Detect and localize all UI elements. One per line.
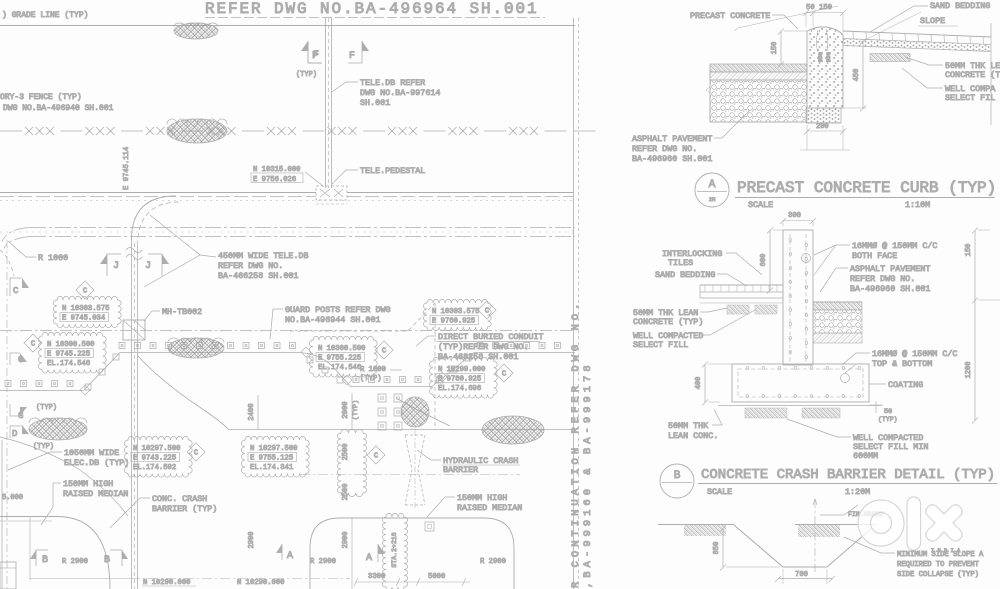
svg-text:R 2900: R 2900	[310, 558, 336, 566]
svg-text:2900: 2900	[342, 532, 350, 549]
guardrail diagonal left	[84, 353, 120, 391]
rebar callout circle	[802, 254, 811, 263]
svg-text:400: 400	[695, 377, 703, 390]
median left vertical dim	[29, 516, 31, 580]
svg-text:2M: 2M	[709, 196, 716, 203]
flag marker F	[301, 41, 308, 63]
sand bedding dots band	[843, 39, 991, 52]
svg-text:SLOPE: SLOPE	[920, 16, 945, 26]
svg-text:N 10297.500: N 10297.500	[250, 445, 297, 453]
svg-text:ORY-3 FENCE (TYP): ORY-3 FENCE (TYP)	[0, 93, 82, 102]
svg-text:EL.174.592: EL.174.592	[133, 464, 176, 472]
svg-text:CONCRETE (T: CONCRETE (T	[945, 70, 1000, 80]
svg-text:SCALE: SCALE	[707, 487, 732, 497]
dim 400 left footing	[704, 364, 706, 402]
svg-text:B: B	[42, 555, 48, 566]
hatched vegetation ellipse	[167, 119, 227, 143]
pedestal below box dashes	[316, 203, 347, 205]
svg-text:GUARD POSTS REFER DWG: GUARD POSTS REFER DWG	[285, 305, 391, 315]
guardrail rise right	[432, 353, 474, 387]
guard post squares	[477, 343, 561, 349]
guard post squares	[5, 381, 73, 387]
svg-text:16MMØ @ 150MM C/C: 16MMØ @ 150MM C/C	[872, 349, 957, 359]
bottom road edge line	[228, 429, 575, 431]
svg-text:300: 300	[788, 212, 801, 220]
svg-text:R 1000: R 1000	[38, 253, 68, 263]
sidewalk right of curb	[843, 31, 991, 37]
svg-text:CONC. CRASH: CONC. CRASH	[152, 494, 207, 504]
ground line left	[658, 524, 734, 526]
svg-text:BARRIER: BARRIER	[443, 465, 478, 475]
svg-text:SCALE: SCALE	[748, 200, 773, 210]
svg-text:N 10303.575: N 10303.575	[62, 305, 109, 313]
continuation boundary lines	[573, 18, 575, 589]
guardrail transition curve right	[296, 353, 350, 387]
svg-text:R50: R50	[817, 52, 824, 62]
dim 450	[862, 41, 864, 108]
svg-text:BA-496960 SH.001: BA-496960 SH.001	[850, 284, 930, 294]
svg-text:700: 700	[795, 571, 808, 579]
svg-text:J: J	[145, 261, 151, 272]
median centerline	[351, 518, 353, 589]
svg-text:TELE.PEDESTAL: TELE.PEDESTAL	[360, 166, 425, 176]
diamond C left	[24, 334, 42, 352]
svg-text:5.000: 5.000	[2, 494, 23, 502]
vertical telecom duct lower	[131, 240, 133, 589]
dim 850 trench	[722, 528, 724, 567]
hatched vegetation ellipse	[29, 418, 87, 440]
stacked conduit squares	[378, 394, 402, 430]
cloud N 10303.575 E 9760.925	[423, 299, 491, 330]
svg-text:50: 50	[884, 408, 892, 416]
guard posts on diagonal	[437, 355, 471, 383]
dim 200 below curb	[807, 130, 843, 132]
leader to dashed conduit	[416, 336, 436, 346]
detail B bubble	[660, 464, 694, 498]
svg-text:EL.174.341: EL.174.341	[250, 464, 293, 472]
svg-text:ELEC.DB (TYP): ELEC.DB (TYP)	[64, 458, 129, 468]
svg-text:) GRADE LINE (TYP): ) GRADE LINE (TYP)	[2, 11, 88, 20]
dim 150 left of curb	[780, 31, 782, 64]
svg-text:SAND BEDDING: SAND BEDDING	[930, 1, 990, 11]
svg-text:REFER DWG NO.: REFER DWG NO.	[632, 144, 697, 154]
ground hatch left	[684, 525, 726, 536]
svg-text:1:10M: 1:10M	[905, 200, 930, 210]
footing rebar dashed	[738, 369, 863, 397]
left edge curve	[0, 250, 14, 276]
svg-text:BA-496960 SH.001: BA-496960 SH.001	[632, 154, 712, 164]
right dim column	[974, 230, 976, 420]
hatched vegetation ellipse	[168, 338, 224, 358]
dashed conduit path	[290, 303, 435, 331]
guard posts on diagonal	[307, 357, 343, 383]
svg-text:2900: 2900	[248, 532, 256, 549]
svg-text:BA-466258 SH.001: BA-466258 SH.001	[218, 271, 298, 281]
asphalt right of stem	[813, 301, 862, 303]
fin grade leader	[820, 505, 858, 515]
ground line right	[795, 524, 876, 526]
stem rebar dashed	[789, 234, 791, 362]
svg-text:R CONTINUATION REFER DWG NO.: R CONTINUATION REFER DWG NO.	[570, 300, 582, 588]
rotated sta text with cloud	[382, 513, 407, 589]
svg-text:R 2900: R 2900	[480, 558, 506, 566]
diamond C right	[495, 364, 513, 382]
svg-text:(TYP): (TYP)	[36, 404, 57, 412]
lean concrete under sidewalk	[870, 54, 910, 62]
footing	[732, 364, 869, 402]
guard post squares	[119, 343, 296, 349]
lean conc under footing	[718, 405, 882, 407]
ground hatch right	[798, 525, 840, 537]
svg-text:E 9756.026: E 9756.026	[253, 176, 296, 184]
svg-text:850: 850	[713, 542, 721, 555]
cloud N 10297.500 second	[241, 436, 309, 477]
svg-text:SH.001: SH.001	[360, 98, 390, 108]
diamond C near J	[76, 281, 94, 299]
guardrail row 2 (low)	[350, 386, 432, 388]
svg-text:LEAN CONC.: LEAN CONC.	[668, 431, 718, 441]
cloud N 10299.000	[429, 357, 497, 398]
dim 700 trench	[778, 578, 832, 580]
guardrail row 3 right	[474, 352, 575, 354]
svg-text:C: C	[83, 288, 87, 296]
svg-text:ASPHALT PAVEMENT: ASPHALT PAVEMENT	[632, 134, 712, 144]
svg-text:150MM HIGH: 150MM HIGH	[63, 479, 113, 489]
leader V to duct	[150, 215, 216, 257]
svg-text:STA.2+216: STA.2+216	[391, 532, 398, 567]
trench centerline	[814, 500, 816, 572]
barrier stem	[783, 230, 813, 365]
svg-text:F: F	[349, 51, 355, 62]
sidewalk left of stem	[700, 284, 783, 286]
svg-text:2000: 2000	[342, 401, 350, 418]
cloud chain vertical 2500	[337, 429, 366, 496]
svg-text:N 10299.000: N 10299.000	[438, 366, 485, 374]
svg-text:B: B	[674, 470, 681, 482]
bottom dimension line	[30, 578, 130, 580]
svg-text:(TYP): (TYP)	[296, 71, 317, 79]
svg-text:450MM WIDE TELE.DB: 450MM WIDE TELE.DB	[218, 251, 308, 261]
svg-text:N 10297.500: N 10297.500	[133, 445, 180, 453]
svg-text:F: F	[312, 51, 318, 62]
svg-text:C: C	[502, 371, 506, 379]
svg-text:REFER DWG NO.: REFER DWG NO.	[218, 261, 283, 271]
svg-text:DIRECT BURIED CONDUIT: DIRECT BURIED CONDUIT	[438, 332, 544, 342]
trench trapezoid	[734, 525, 872, 567]
svg-text:(TYP): (TYP)	[33, 443, 54, 451]
left bottom curves	[0, 437, 128, 516]
hydraulic crash barrier symbol	[405, 435, 425, 505]
cloud N 10300.500 left	[38, 332, 106, 373]
road edge top double line	[0, 192, 316, 194]
svg-text:C: C	[31, 341, 35, 349]
svg-text:N 10300.500: N 10300.500	[47, 341, 94, 349]
dimension 2400 rotated	[257, 395, 259, 430]
svg-text:PRECAST CONCRETE CURB (TYP): PRECAST CONCRETE CURB (TYP)	[737, 179, 996, 197]
curb body	[807, 27, 843, 108]
svg-text:TELE.DB REFER: TELE.DB REFER	[360, 78, 425, 88]
sidewalk right border	[990, 23, 992, 125]
svg-text:50MM THK: 50MM THK	[668, 421, 709, 431]
hatched vegetation ellipse	[174, 23, 218, 39]
grade line (top)	[0, 25, 575, 27]
flag C left edge	[10, 278, 22, 296]
tile joints	[853, 32, 983, 45]
lean conc strips under sidewalk B	[727, 305, 749, 314]
svg-text:NO.BA-496944 SH.001: NO.BA-496944 SH.001	[285, 315, 381, 325]
svg-text:BARRIER (TYP): BARRIER (TYP)	[152, 504, 217, 514]
left edge dash-dot vertical	[6, 240, 8, 589]
duct curve R1000	[132, 196, 177, 240]
svg-text:J: J	[113, 261, 119, 272]
svg-text:BA-468258 SH.001: BA-468258 SH.001	[438, 352, 518, 362]
guard posts on diagonal	[85, 354, 119, 390]
dash-dot utility line y330	[0, 330, 575, 332]
svg-text:2400: 2400	[248, 403, 256, 420]
svg-text:PRECAST CONCRETE: PRECAST CONCRETE	[690, 11, 770, 21]
svg-text:MH-TB002: MH-TB002	[162, 307, 202, 317]
centerline pair	[30, 227, 575, 229]
svg-text:RAISED MEDIAN: RAISED MEDIAN	[63, 489, 128, 499]
svg-text:450: 450	[853, 69, 861, 82]
diamond C	[478, 301, 496, 319]
A flag bottom left	[281, 544, 283, 560]
tele pedestal symbol	[316, 186, 347, 200]
svg-text:(TYP): (TYP)	[352, 400, 360, 420]
curb face curves	[817, 29, 828, 52]
svg-text:C: C	[485, 308, 489, 316]
road edge curve left into bottom	[138, 356, 228, 429]
median corner bottom left	[0, 517, 110, 589]
svg-text:2500: 2500	[342, 484, 350, 501]
left bottom small rect	[0, 562, 16, 589]
guardrail row 1 line	[120, 352, 296, 354]
dim 600 left	[769, 230, 771, 290]
svg-text:1:20M: 1:20M	[845, 487, 870, 497]
leader to tele duct	[332, 82, 358, 92]
svg-text:200: 200	[816, 123, 829, 131]
svg-text:SIDE COLLAPSE (TYP): SIDE COLLAPSE (TYP)	[897, 571, 979, 579]
svg-text:1200: 1200	[965, 362, 973, 379]
rebar circle footing	[841, 374, 850, 383]
svg-text:SELECT FIL: SELECT FIL	[945, 93, 995, 103]
svg-text:REQUIRED TO PREVENT: REQUIRED TO PREVENT	[897, 561, 980, 569]
svg-text:,BA-999160 & BA-999178: ,BA-999160 & BA-999178	[582, 361, 594, 588]
svg-text:REFER DWG NO.BA-496964 SH.001: REFER DWG NO.BA-496964 SH.001	[205, 0, 539, 18]
svg-text:BOTH FACE: BOTH FACE	[852, 251, 897, 261]
svg-text:150: 150	[771, 42, 779, 55]
B flags bottom	[36, 550, 48, 566]
dim 50 typ right footing	[869, 401, 883, 413]
hatched vegetation ellipse	[482, 416, 544, 444]
svg-text:A: A	[709, 179, 716, 191]
svg-text:A: A	[287, 551, 293, 562]
vertical telecom duct upper	[325, 18, 327, 188]
duct break marks	[126, 248, 142, 260]
svg-text:DWG NO.BA-997614: DWG NO.BA-997614	[360, 88, 440, 98]
svg-text:N 10300.500: N 10300.500	[318, 345, 365, 353]
svg-text:SAND BEDDING: SAND BEDDING	[655, 270, 715, 280]
diamond C mid	[375, 341, 393, 359]
median stadium bottom center	[310, 518, 514, 589]
dimension 2000 (TYP) rotated	[351, 393, 353, 430]
svg-text:COATING: COATING	[888, 380, 923, 390]
svg-text:C: C	[13, 286, 19, 296]
diamond post	[301, 347, 352, 385]
hatched vegetation ellipse	[401, 397, 429, 427]
svg-text:A: A	[366, 553, 372, 564]
svg-text:2500: 2500	[342, 444, 350, 461]
cloud N 10303.575 / E 9745.034	[53, 296, 121, 327]
guardrail row 0 left	[0, 390, 84, 392]
svg-text:16MMØ @ 150MM C/C: 16MMØ @ 150MM C/C	[852, 241, 937, 251]
small square marker	[425, 522, 434, 531]
flag F right	[348, 41, 362, 63]
pavement leader arrow	[706, 87, 710, 93]
diamond posts transition left	[80, 385, 90, 395]
svg-text:E 9745.114: E 9745.114	[123, 147, 131, 190]
svg-text:EL.174.546: EL.174.546	[47, 360, 90, 368]
svg-text:C: C	[374, 453, 378, 461]
svg-text:EL.174.546: EL.174.546	[318, 364, 361, 372]
flag J left	[107, 254, 121, 276]
svg-text:CONCRETE (TYP): CONCRETE (TYP)	[633, 317, 703, 327]
svg-text:N 10303.575: N 10303.575	[432, 308, 479, 316]
curve from stacked squares	[396, 398, 450, 426]
svg-text:N 10290.000: N 10290.000	[237, 579, 284, 587]
svg-text:DWG NO.BA-496940 SH.001: DWG NO.BA-496940 SH.001	[3, 104, 114, 113]
svg-text:600MM: 600MM	[853, 451, 878, 461]
OLX watermark	[858, 497, 962, 550]
svg-text:B: B	[104, 555, 110, 566]
A flag bottom mid	[377, 544, 379, 562]
curb base sand layer	[806, 108, 841, 123]
asphalt pavement layers left	[710, 64, 807, 72]
svg-text:INDIA: INDIA	[931, 547, 964, 554]
svg-text:TOP & BOTTOM: TOP & BOTTOM	[872, 359, 932, 369]
svg-text:5000: 5000	[428, 573, 445, 581]
svg-text:150MM HIGH: 150MM HIGH	[457, 493, 507, 503]
svg-text:600: 600	[760, 254, 768, 267]
svg-text:EL.174.696: EL.174.696	[438, 385, 481, 393]
manhole MH-TB002	[123, 320, 145, 340]
svg-text:R 2900: R 2900	[62, 558, 88, 566]
dash-dot line y474	[300, 474, 520, 476]
fence line with X posts	[0, 127, 596, 135]
svg-text:150: 150	[965, 244, 973, 257]
svg-text:C: C	[194, 450, 198, 458]
svg-text:REFER DWG NO.: REFER DWG NO.	[850, 274, 915, 284]
svg-text:R30: R30	[825, 52, 832, 62]
detail A bubble	[695, 173, 729, 207]
flag J right	[148, 254, 162, 276]
svg-text:R 1000: R 1000	[360, 366, 386, 374]
guard post squares	[353, 377, 421, 383]
svg-text:ASPHALT PAVEMENT: ASPHALT PAVEMENT	[850, 264, 930, 274]
svg-text:CONCRETE CRASH BARRIER DETAIL: CONCRETE CRASH BARRIER DETAIL (TYP)	[701, 467, 995, 483]
svg-text:1050MM WIDE: 1050MM WIDE	[64, 448, 119, 458]
svg-text:C: C	[382, 348, 386, 356]
svg-text:SELECT FILL: SELECT FILL	[633, 340, 688, 350]
svg-text:TILES: TILES	[668, 258, 693, 268]
svg-text:D: D	[12, 429, 17, 439]
svg-text:RAISED MEDIAN: RAISED MEDIAN	[457, 503, 522, 513]
cloud N 10297.500 bottom left	[124, 436, 192, 477]
svg-text:(TYP): (TYP)	[878, 416, 898, 423]
cloud N 10300.500 mid	[309, 336, 377, 377]
